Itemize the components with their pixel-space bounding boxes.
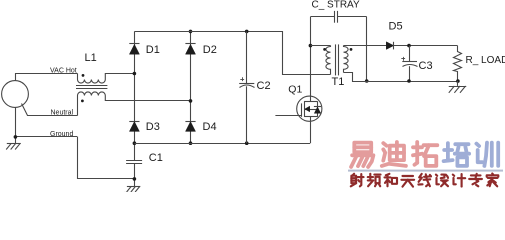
- svg-text:VAC Hot: VAC Hot: [50, 68, 77, 75]
- svg-text:T1: T1: [332, 76, 345, 88]
- svg-text:D4: D4: [203, 121, 217, 133]
- svg-text:C2: C2: [257, 80, 271, 92]
- svg-text:C3: C3: [419, 60, 433, 72]
- svg-text:C1: C1: [149, 152, 163, 164]
- svg-text:Ground: Ground: [50, 131, 73, 138]
- svg-text:R_ LOAD: R_ LOAD: [466, 55, 505, 66]
- svg-text:D3: D3: [146, 121, 160, 133]
- svg-text:D2: D2: [203, 44, 217, 56]
- svg-text:Q1: Q1: [288, 84, 302, 96]
- svg-text:Neutral: Neutral: [51, 110, 74, 117]
- svg-text:L1: L1: [85, 52, 97, 64]
- svg-text:D5: D5: [389, 21, 403, 33]
- svg-text:C_ STRAY: C_ STRAY: [312, 0, 360, 10]
- svg-text:D1: D1: [146, 44, 160, 56]
